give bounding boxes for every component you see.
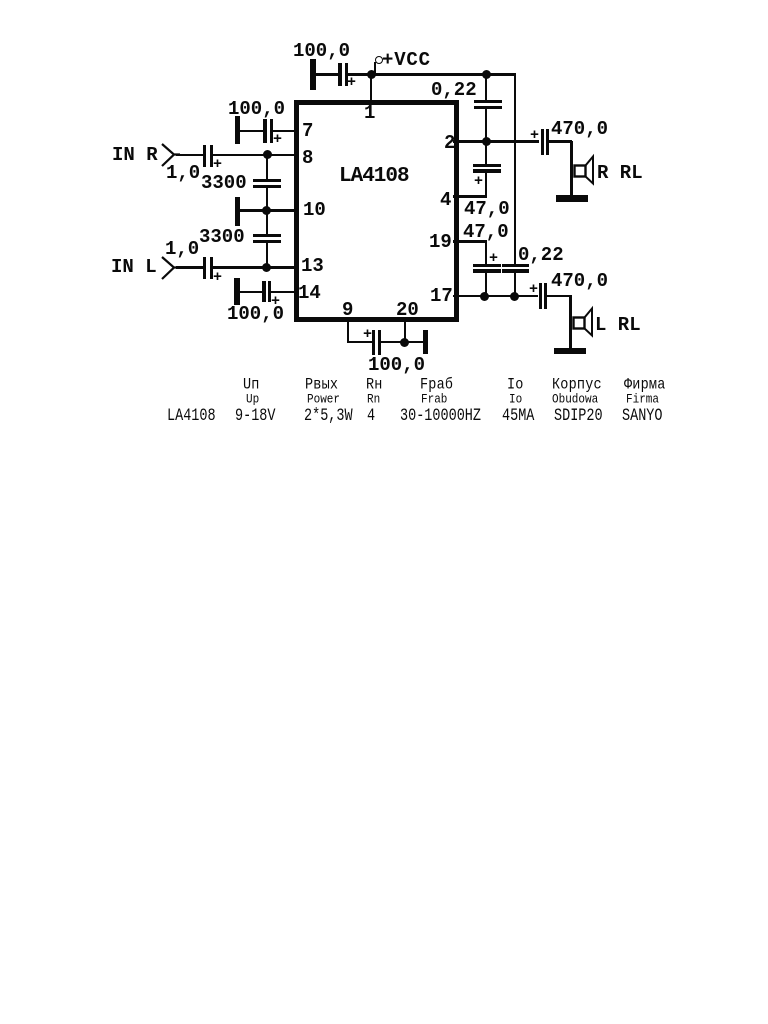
pin 10 number <box>303 201 326 220</box>
wire pin 19 <box>453 240 487 243</box>
pin 20 number <box>396 301 419 320</box>
capacitor C7 label 47,0 <box>463 223 509 242</box>
polarity + of C1 <box>213 157 222 172</box>
capacitor C6 47,0 plates <box>473 164 501 167</box>
polarity + of C12 <box>213 270 222 285</box>
table header Frab <box>420 378 453 394</box>
ground bar below speaker R <box>556 195 588 202</box>
wire node8 down to C10 <box>266 155 268 180</box>
capacitor C6 label 47,0 <box>464 200 510 219</box>
polarity + of C13 <box>271 294 280 309</box>
wire C3 bottom to pin2 node <box>485 109 487 142</box>
capacitor C10 plates <box>253 179 281 182</box>
node top of C3 0,22 <box>482 70 491 79</box>
IC U1 LA4108 body <box>294 100 459 322</box>
wire pin 2 <box>453 140 539 143</box>
wire node to C3 top <box>485 75 487 100</box>
wire C9 to speaker L <box>547 295 571 298</box>
wire node10 down to C11 <box>266 211 268 235</box>
polarity + of C5 <box>530 128 539 143</box>
polarity + of C9 <box>529 282 538 297</box>
table value 4 <box>367 408 375 426</box>
capacitor C3 plates <box>474 100 502 103</box>
capacitor C8 0,22 label <box>518 246 564 265</box>
wire C11 to node13 <box>266 242 268 267</box>
node pin10 <box>262 206 271 215</box>
polarity + of C7 <box>489 251 498 266</box>
table header Io <box>507 378 524 394</box>
capacitor C13 100,0 plates <box>262 281 266 302</box>
table sub Up <box>246 394 259 407</box>
table sub Obudowa <box>552 394 598 407</box>
polarity + of C2 <box>273 132 282 147</box>
node VCC junction <box>367 70 376 79</box>
wire pin9 to C14 <box>347 341 373 344</box>
capacitor C14 100,0 plates <box>372 330 375 355</box>
capacitor C9 label 470,0 <box>551 272 608 291</box>
wire VCC circle to node <box>374 62 376 74</box>
capacitor C3 0,22 label <box>431 81 477 100</box>
polarity + of C6 <box>474 174 483 189</box>
node pin17 left <box>480 292 489 301</box>
ground bar at C14 <box>423 330 428 354</box>
capacitor C-top 100,0 value label <box>293 42 350 61</box>
node pin8 <box>263 150 272 159</box>
capacitor C1 label 1,0 <box>166 164 200 183</box>
wire bar to C2 <box>240 130 264 133</box>
connector IN L <box>158 253 184 283</box>
connector IN R <box>158 140 184 170</box>
node pin13 <box>262 263 271 272</box>
pin 1 number <box>364 104 375 123</box>
node pin2 <box>482 137 491 146</box>
pin 17 number <box>430 287 453 306</box>
table value 9-18V <box>235 408 276 426</box>
table header Rn <box>366 378 383 394</box>
capacitor C1 1,0 plates <box>203 145 206 167</box>
pin 9 number <box>342 301 353 320</box>
table header Un <box>243 378 260 394</box>
wire C2 to pin 7 <box>273 130 299 133</box>
ground bar at C-top <box>310 59 316 90</box>
capacitor C10 3300 label <box>201 174 247 193</box>
capacitor C-top plates <box>338 63 342 86</box>
wire pin 17 <box>453 295 538 298</box>
table value SANYO <box>622 408 663 426</box>
wire C7 to pin17 node <box>485 272 487 297</box>
table value 45MA <box>502 408 534 426</box>
ground bar below speaker L <box>554 348 586 354</box>
pin 2 number <box>444 134 455 153</box>
speaker L symbol <box>567 304 597 340</box>
wire ground-bar to C-top <box>316 73 339 76</box>
table header Korpus <box>552 378 602 394</box>
capacitor C8 plates <box>502 264 529 267</box>
label R RL <box>597 164 643 183</box>
pin 19 number <box>429 233 452 252</box>
terminal circle +VCC <box>375 56 383 64</box>
wire IN L to C12 <box>176 266 203 269</box>
ground bar at pin10 <box>235 197 241 226</box>
wire down to speaker L <box>569 295 571 349</box>
capacitor C13 label 100,0 <box>227 305 284 324</box>
ground bar at pin14 <box>234 278 240 305</box>
table sub Frab <box>421 394 447 407</box>
capacitor C2 plates <box>263 119 267 143</box>
wire C5 to speaker R <box>549 140 572 143</box>
wire C-top to VCC node <box>347 73 372 76</box>
wire IN R to C1 <box>176 154 203 157</box>
capacitor C7 47,0 plates <box>473 264 501 267</box>
pin 14 number <box>298 284 321 303</box>
wire pin 10 <box>240 209 299 212</box>
wire pin 4 <box>453 195 487 198</box>
wire pin20 stub <box>404 317 406 342</box>
capacitor C2 100,0 label <box>228 100 285 119</box>
wire C6 to pin4 wire <box>485 172 487 197</box>
capacitor C14 label 100,0 <box>368 356 425 375</box>
label IN L <box>111 258 157 277</box>
capacitor C12 label 1,0 <box>165 240 199 259</box>
table sub Io <box>509 394 522 407</box>
wire C8 to pin17 node <box>514 272 516 297</box>
pin 7 number <box>302 122 313 141</box>
wire C1 to pin 8 <box>212 154 299 157</box>
wire VCC rail top horizontal <box>371 73 516 76</box>
table header Pvyx <box>305 378 338 394</box>
node pin20 <box>400 338 409 347</box>
table value LA4108 <box>167 408 216 426</box>
wire pin1 stub <box>370 75 372 100</box>
capacitor C12 1,0 plates <box>203 257 206 279</box>
table sub Power <box>307 394 340 407</box>
wire bar to C13 <box>240 291 263 294</box>
wire C13 to pin 14 <box>270 291 299 294</box>
table sub Rn <box>367 394 380 407</box>
wire C12 to pin 13 <box>212 266 299 269</box>
polarity + of C-top <box>347 75 356 90</box>
capacitor C11 plates <box>253 234 281 237</box>
pin 8 number <box>302 149 313 168</box>
pin 4 number <box>440 191 451 210</box>
wire pin2-node to C6 <box>485 142 487 165</box>
table value SDIP20 <box>554 408 603 426</box>
wire pin9 stub <box>347 317 349 343</box>
label IN R <box>112 146 158 165</box>
ground bar at C2 <box>235 116 241 144</box>
table sub Firma <box>626 394 659 407</box>
label L RL <box>595 316 641 335</box>
capacitor C5 470,0 plates <box>541 129 544 155</box>
table value 30-10000HZ <box>400 408 481 426</box>
wire C10 to node10 <box>266 187 268 212</box>
label +VCC <box>382 51 431 70</box>
pin 13 number <box>301 257 324 276</box>
label LA4108 <box>339 166 409 187</box>
wire C14 to ground bar <box>381 341 424 344</box>
wire pin19 to C7 <box>485 241 487 266</box>
wire right VCC rail vertical <box>514 73 516 265</box>
speaker R symbol <box>568 152 598 188</box>
polarity + of C14 <box>363 327 372 342</box>
node pin17 right <box>510 292 519 301</box>
table value 2*5,3W <box>304 408 353 426</box>
wire down to speaker R <box>570 141 572 196</box>
capacitor C9 470,0 plates <box>539 283 542 309</box>
table header Firma <box>624 378 666 394</box>
capacitor C5 label 470,0 <box>551 120 608 139</box>
capacitor C11 3300 label <box>199 228 245 247</box>
